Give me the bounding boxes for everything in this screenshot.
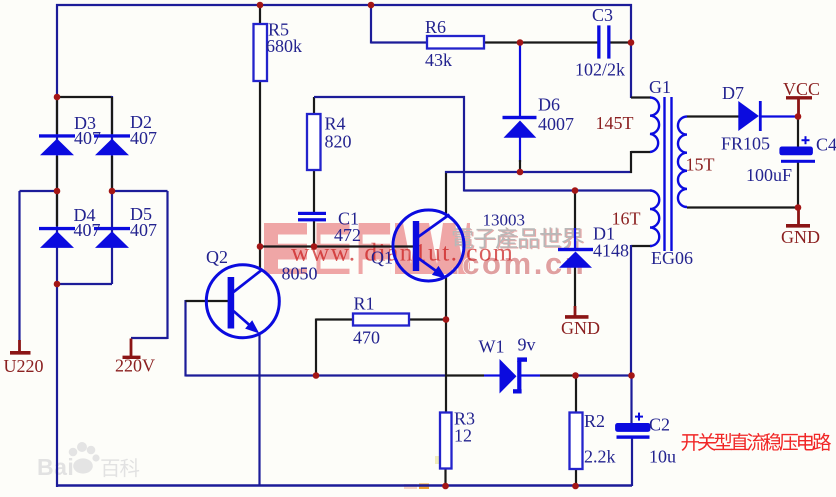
svg-text:VCC: VCC	[783, 79, 820, 99]
wire	[575, 374, 632, 376]
watermark smudge	[404, 484, 417, 489]
wire	[630, 245, 632, 376]
wire	[610, 41, 632, 43]
svg-text:GND: GND	[781, 227, 820, 247]
wire	[484, 374, 500, 376]
wire Q1 base net	[260, 245, 414, 247]
resistor R1	[353, 314, 409, 326]
wire bridge right column	[111, 96, 113, 284]
svg-text:407: 407	[130, 220, 157, 240]
transformer core	[663, 97, 665, 251]
svg-text:220V: 220V	[115, 356, 155, 376]
wire	[184, 300, 186, 377]
svg-text:680k: 680k	[266, 36, 302, 56]
diode D1	[558, 248, 593, 251]
wire W1 anode net	[186, 374, 447, 376]
svg-text:C3: C3	[592, 5, 613, 25]
wire	[131, 337, 168, 339]
resistor R3	[440, 413, 452, 469]
wire bridge top rail	[57, 96, 112, 98]
wire	[519, 160, 521, 172]
wire	[446, 374, 484, 376]
wire	[574, 228, 576, 249]
wire bridge bottom rail	[57, 283, 112, 285]
svg-text:15T: 15T	[686, 155, 715, 175]
svg-text:9v: 9v	[518, 335, 536, 355]
capacitor C1	[298, 212, 326, 215]
svg-text:R1: R1	[354, 294, 375, 314]
ground GND at D1	[574, 306, 577, 316]
wire	[687, 206, 799, 208]
wire	[315, 319, 317, 377]
wire	[56, 97, 58, 134]
wire to 220V	[112, 190, 168, 192]
transistor Q2	[206, 265, 279, 338]
svg-text:13003: 13003	[483, 211, 526, 230]
title text 开关型直流稳压电路	[682, 434, 699, 451]
wire	[166, 191, 168, 339]
svg-text:Bai: Bai	[37, 454, 74, 480]
wire	[519, 137, 521, 162]
wire	[316, 318, 353, 320]
diode D5	[94, 227, 130, 230]
wire	[574, 267, 576, 307]
wire Q2 emitter	[258, 333, 260, 486]
svg-text:2.2k: 2.2k	[584, 447, 616, 467]
wire	[797, 162, 799, 208]
capacitor C3	[597, 25, 600, 58]
svg-text:U220: U220	[4, 356, 44, 376]
svg-text:102/2k: 102/2k	[575, 60, 625, 80]
svg-text:820: 820	[325, 132, 352, 152]
svg-text:Q2: Q2	[206, 247, 228, 267]
diode D7	[738, 101, 759, 131]
wire top rail	[56, 4, 632, 6]
svg-text:C2: C2	[649, 415, 670, 435]
wire	[575, 469, 577, 486]
svg-text:C4: C4	[816, 135, 836, 155]
junction dots	[54, 94, 61, 101]
wire	[56, 156, 58, 226]
transistor Q1	[393, 210, 464, 281]
wire	[761, 115, 799, 117]
U220 terminal	[18, 340, 21, 352]
wire	[631, 438, 633, 486]
wire	[313, 97, 315, 114]
svg-text:Q1: Q1	[371, 248, 393, 268]
zener W1	[500, 359, 517, 394]
wire	[630, 151, 632, 173]
svg-text:12: 12	[454, 426, 472, 446]
svg-text:100uF: 100uF	[746, 165, 792, 185]
wire	[186, 300, 230, 302]
wire	[484, 41, 598, 43]
capacitor C2	[615, 423, 650, 432]
resistor R4	[307, 114, 321, 170]
wire	[313, 170, 315, 212]
wire vertical to 16T	[463, 96, 465, 192]
svg-text:8050: 8050	[282, 264, 318, 284]
transformer winding 16T	[650, 191, 659, 247]
svg-text:470: 470	[353, 328, 380, 348]
wire	[519, 43, 521, 117]
svg-text:W1: W1	[479, 337, 505, 357]
resistor R6	[427, 36, 484, 49]
wire	[575, 376, 577, 414]
wire	[631, 96, 651, 98]
svg-text:R6: R6	[425, 17, 446, 37]
svg-text:www. dian1ut. com: www. dian1ut. com	[291, 238, 514, 267]
220V terminal	[130, 339, 133, 358]
wire	[631, 151, 650, 153]
wire collector to 145T net	[445, 171, 632, 173]
wire	[521, 374, 540, 376]
svg-text:407: 407	[74, 128, 101, 148]
wire Q1 collector	[445, 171, 447, 216]
wire bottom ground rail	[57, 484, 632, 487]
wire	[409, 318, 447, 320]
transformer winding 145T	[650, 98, 659, 153]
svg-text:4148: 4148	[593, 241, 629, 261]
wire	[259, 81, 261, 270]
ground GND at C4	[797, 208, 800, 226]
svg-text:145T: 145T	[596, 113, 634, 133]
transformer winding 15T	[678, 117, 687, 208]
capacitor C4	[779, 147, 813, 156]
svg-text:EG06: EG06	[651, 248, 693, 268]
resistor R2	[570, 413, 583, 470]
svg-text:43k: 43k	[425, 50, 452, 70]
diode D3	[39, 134, 75, 137]
svg-text:10u: 10u	[649, 447, 676, 467]
wire left vertical bus	[56, 4, 58, 487]
wire	[313, 221, 315, 247]
wire R4 top net	[314, 96, 465, 98]
svg-text:D7: D7	[722, 83, 744, 103]
svg-text:R2: R2	[584, 411, 605, 431]
wire	[797, 117, 799, 148]
diode D4	[39, 227, 75, 230]
svg-text:G1: G1	[649, 77, 671, 97]
svg-text:D6: D6	[538, 95, 560, 115]
watermark EEPW block	[264, 223, 307, 274]
svg-text:407: 407	[74, 220, 101, 240]
watermark chinese gray	[454, 229, 474, 249]
VCC symbol	[797, 98, 800, 117]
wire Q1 emitter to R3	[445, 277, 447, 413]
wire	[111, 156, 113, 190]
wire	[370, 5, 372, 44]
wire 16T top net	[464, 189, 652, 191]
wire R5 top lead	[259, 5, 261, 24]
wire	[540, 374, 576, 376]
wire	[574, 191, 576, 231]
svg-text:4007: 4007	[538, 114, 574, 134]
wire	[631, 245, 652, 247]
wire	[18, 191, 20, 341]
wire	[687, 115, 739, 117]
svg-text:16T: 16T	[612, 209, 641, 229]
wire	[371, 41, 427, 43]
wire	[111, 97, 113, 134]
svg-text:FR105: FR105	[721, 134, 770, 154]
diode D2	[94, 134, 130, 137]
wire	[444, 469, 446, 487]
resistor R5	[254, 24, 268, 81]
wire to U220	[20, 190, 58, 192]
diode D6	[503, 116, 537, 119]
svg-text:472: 472	[334, 225, 361, 245]
wire right vertical	[630, 4, 632, 98]
svg-text:R4: R4	[325, 114, 346, 134]
svg-text:407: 407	[130, 128, 157, 148]
svg-text:GND: GND	[561, 318, 600, 338]
wire	[630, 376, 632, 425]
